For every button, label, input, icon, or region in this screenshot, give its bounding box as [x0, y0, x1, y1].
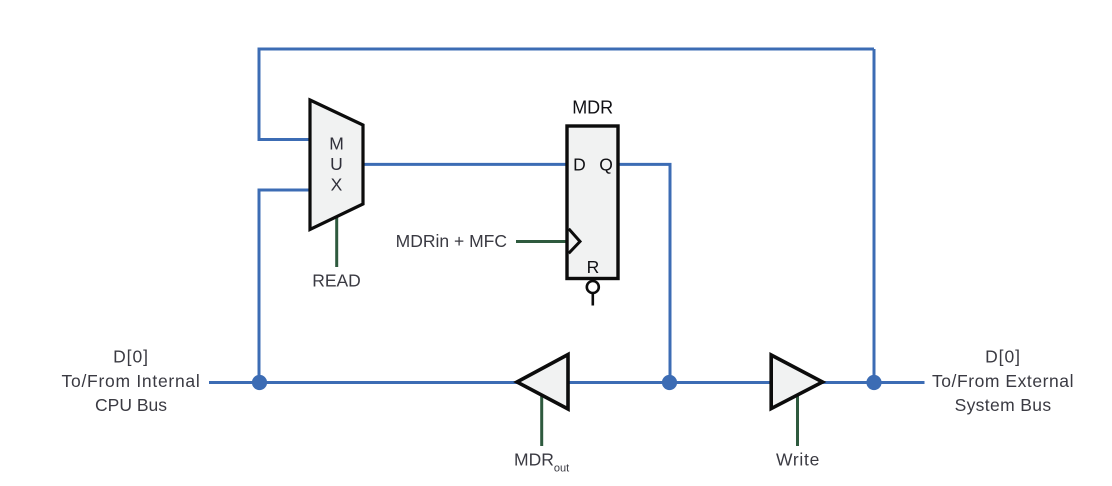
svg-text:Q: Q: [599, 155, 613, 175]
svg-text:X: X: [331, 175, 343, 195]
svg-text:CPU Bus: CPU Bus: [95, 395, 167, 415]
node: Q-to-bus junction: [662, 375, 677, 390]
svg-text:MDRin + MFC: MDRin + MFC: [396, 231, 507, 251]
svg-text:System Bus: System Bus: [955, 395, 1052, 415]
svg-text:U: U: [330, 154, 343, 174]
wire: external system bus vertical: [873, 49, 876, 383]
svg-text:Write: Write: [776, 450, 820, 470]
wire: MUX input B from internal bus: [259, 190, 311, 383]
node: external bus junction: [866, 375, 881, 390]
wire: reset stub: [591, 293, 594, 306]
svg-text:D[0]: D[0]: [985, 347, 1021, 367]
svg-text:R: R: [587, 257, 600, 277]
svg-text:To/From Internal: To/From Internal: [62, 371, 201, 391]
node: internal bus junction: [252, 375, 267, 390]
flip-flop register U1 body: [567, 126, 618, 279]
clock chevron on flip-flop: [569, 229, 580, 254]
svg-text:M: M: [329, 134, 344, 154]
wire: internal CPU bus horizontal: [209, 381, 925, 384]
reset bubble: [587, 281, 599, 293]
wire: MDRout select into left buffer: [540, 393, 543, 446]
wire: top feedback from external bus to MUX input A: [259, 49, 874, 140]
multiplexer MUX: [310, 100, 363, 230]
svg-text:D: D: [573, 155, 586, 175]
svg-text:To/From External: To/From External: [932, 371, 1074, 391]
wire: Write select into right buffer: [796, 393, 799, 446]
svg-text:D[0]: D[0]: [113, 347, 149, 367]
wire: READ select into MUX: [335, 214, 338, 267]
svg-text:MDR: MDR: [572, 97, 613, 117]
svg-text:READ: READ: [312, 271, 361, 291]
tri-state buffer Write (points right): [771, 355, 822, 409]
wire: MDRin+MFC clock input: [516, 240, 567, 243]
wire: MUX output to D input: [362, 163, 568, 166]
wire: Q output down to bus: [617, 164, 670, 382]
svg-text:MDRout: MDRout: [514, 450, 569, 475]
tri-state buffer MDRout (points left): [517, 355, 568, 410]
